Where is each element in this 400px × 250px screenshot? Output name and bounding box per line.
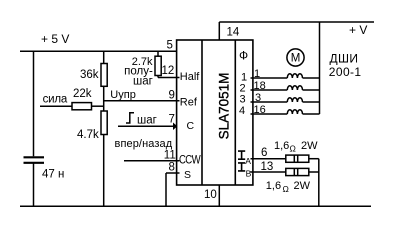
wire phase3 right — [303, 101, 320, 103]
motor M1 circle — [287, 49, 304, 66]
wire 4.7k to ground — [103, 135, 105, 207]
svg-text:B: B — [246, 169, 252, 179]
svg-text:13: 13 — [261, 161, 274, 173]
wire 22k to node — [92, 105, 104, 107]
svg-text:9: 9 — [169, 89, 175, 101]
ground bottom rail — [20, 205, 371, 207]
svg-text:6: 6 — [261, 147, 267, 159]
+V top rail — [219, 21, 374, 23]
wire sila input — [40, 105, 72, 107]
svg-text:11: 11 — [164, 149, 176, 161]
svg-text:A: A — [245, 156, 251, 166]
wire pin10 stub — [218, 185, 220, 206]
wire pin13 IB — [251, 171, 286, 173]
inductor winding L4 — [287, 110, 302, 114]
resistor R1 36k — [101, 64, 107, 87]
svg-text:5: 5 — [167, 40, 173, 52]
+5V rail — [20, 50, 177, 52]
svg-text:10: 10 — [204, 189, 217, 201]
wire pin6 IA — [251, 158, 286, 160]
chip divider left — [201, 40, 203, 185]
wire 36k branch top — [103, 51, 105, 63]
svg-text:ДШИ: ДШИ — [330, 52, 359, 66]
wire pin9 Ref — [104, 100, 180, 102]
svg-text:сила: сила — [43, 93, 68, 105]
wire R5 right — [309, 158, 319, 160]
svg-text:S: S — [184, 169, 191, 181]
wire 2.7k bottom stub — [157, 76, 159, 78]
svg-text:1,6: 1,6 — [266, 180, 281, 192]
svg-text:47 н: 47 н — [42, 169, 64, 181]
wire capacitor branch upper — [33, 51, 35, 156]
chip label IA — [238, 151, 245, 159]
svg-text:CCW: CCW — [179, 154, 201, 167]
svg-text:1: 1 — [241, 71, 247, 83]
wire pin14 stub — [218, 22, 220, 40]
pin7 arrowhead — [173, 123, 177, 131]
svg-text:Ω: Ω — [290, 144, 296, 154]
inductor winding L3 — [287, 98, 302, 102]
svg-text:8: 8 — [169, 162, 175, 174]
svg-text:Uупр: Uупр — [110, 89, 136, 101]
svg-text:1,6: 1,6 — [274, 140, 289, 152]
inductor winding L2 — [287, 86, 302, 90]
wire capacitor branch lower — [33, 164, 35, 207]
wire 36k to 4.7k — [103, 86, 105, 111]
wire phase4 right — [303, 113, 320, 115]
svg-text:Half: Half — [180, 71, 201, 83]
svg-text:12: 12 — [162, 65, 175, 77]
wire 2.7k top stub — [157, 51, 159, 56]
wire pin12 Half — [158, 77, 180, 79]
svg-text:Ω: Ω — [283, 184, 289, 194]
svg-text:200-1: 200-1 — [329, 65, 362, 79]
svg-text:Ref: Ref — [180, 97, 198, 109]
svg-text:4.7k: 4.7k — [77, 129, 99, 141]
resistor R5 1.6ohm — [286, 155, 309, 162]
svg-text:шаг: шаг — [133, 76, 153, 88]
svg-text:2: 2 — [240, 83, 246, 95]
wire pin8 horizontal — [166, 172, 180, 174]
svg-text:14: 14 — [227, 26, 240, 38]
wire phase1 left — [251, 77, 288, 79]
capacitor C1 plates — [24, 156, 45, 158]
chip label IB — [238, 163, 245, 171]
wire winding common bus — [319, 22, 321, 114]
resistor R3 22k — [72, 103, 92, 110]
chip divider right — [234, 40, 236, 185]
wire R6 right — [309, 171, 319, 173]
wire phase1 right — [303, 77, 320, 79]
svg-text:шаг: шаг — [137, 115, 157, 127]
resistor R2 4.7k — [101, 111, 107, 135]
op-amp U1 SLA7051M outline — [177, 40, 253, 185]
svg-text:36k: 36k — [80, 69, 99, 81]
resistor R4 2.7k — [155, 56, 161, 75]
svg-text:впер/назад: впер/назад — [115, 138, 173, 150]
svg-text:+ 5 V: + 5 V — [41, 32, 69, 46]
wire pin8 to ground — [165, 173, 167, 206]
svg-text:18: 18 — [254, 80, 266, 92]
svg-text:C: C — [187, 120, 195, 132]
wire pin11 direction — [124, 160, 180, 162]
svg-text:3: 3 — [255, 92, 261, 104]
svg-text:2W: 2W — [301, 140, 318, 152]
svg-text:Ф: Ф — [239, 49, 248, 63]
wire phase3 left — [251, 101, 288, 103]
wire pin7 step input — [118, 125, 174, 127]
svg-text:+ V: + V — [349, 23, 367, 37]
svg-text:1: 1 — [254, 68, 260, 80]
wire phase4 left — [251, 113, 288, 115]
wire phase2 left — [251, 89, 288, 91]
svg-text:4: 4 — [239, 105, 245, 117]
svg-text:2W: 2W — [294, 180, 311, 192]
resistor R6 1.6ohm — [286, 168, 309, 175]
svg-text:SLA7051M: SLA7051M — [217, 73, 232, 140]
svg-text:22k: 22k — [73, 88, 92, 100]
wire phase2 right — [303, 89, 320, 91]
svg-text:16: 16 — [254, 104, 266, 116]
svg-text:7: 7 — [169, 114, 175, 126]
inductor winding L1 — [287, 74, 302, 78]
wire sense resistor bus to ground — [318, 159, 320, 207]
svg-text:M: M — [291, 53, 301, 65]
step pulse symbol — [126, 113, 134, 123]
